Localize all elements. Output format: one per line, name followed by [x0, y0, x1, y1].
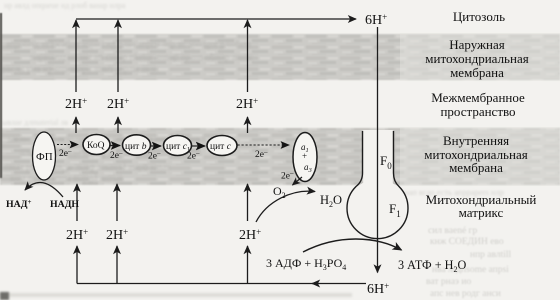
svg-text:Межмембранное: Межмембранное: [431, 90, 525, 105]
electron arrow cyt c to a+a3: [238, 144, 290, 146]
svg-text:НАДН: НАДН: [50, 199, 79, 210]
wire vertical H+ line 1: [75, 20, 77, 92]
cytochrome b ellipse: [123, 135, 151, 155]
svg-text:мембрана: мембрана: [450, 65, 504, 80]
ATP synthase F0 channel and F1 ball outline: [347, 131, 408, 239]
svg-text:нвыл рո апынвض лывջ апынлჰ аыр: нвыл рո апынвض лывջ апынлჰ аырօ кпын: [4, 162, 171, 173]
wire vertical H+ line 3: [247, 20, 249, 92]
bleed noise bottom faint streak: [0, 293, 352, 297]
bottom line continuation: [77, 283, 314, 285]
matrix pump arrow up 1: [76, 184, 78, 221]
svg-text:митохондриальная: митохондриальная: [425, 51, 528, 66]
electron arrow a3 to O2: [293, 177, 303, 185]
bleed-through text noise bottom right: [426, 226, 512, 299]
short pump arrow up 2: [117, 117, 119, 133]
band mottling rows: [2, 39, 254, 184]
wire vertical H+ line 2: [117, 20, 119, 92]
top line 6H+ flow: [76, 18, 356, 20]
svg-text:ФП: ФП: [36, 151, 53, 163]
svg-text:+: +: [302, 151, 307, 161]
central proton channel line: [377, 27, 379, 273]
svg-text:мембрана: мембрана: [449, 160, 503, 175]
svg-text:Наружная: Наружная: [449, 37, 505, 52]
matrix pump arrow up 3: [247, 184, 249, 221]
svg-text:матрикс: матрикс: [459, 205, 504, 220]
svg-text:ват рнаэ ио: ват рнаэ ио: [426, 277, 471, 287]
bottom vertical arrow 3: [247, 246, 249, 284]
svg-text:кнж СОЕДИН ево: кнж СОЕДИН ево: [430, 237, 504, 247]
short pump arrow up 1: [75, 117, 77, 133]
svg-text:цит c: цит c: [210, 142, 232, 152]
svg-text:нпр авлtill: нпр авлtill: [470, 250, 512, 260]
electron arrow FP to KoQ: [57, 144, 78, 146]
svg-text:нлрвապ не звп аո снвар пketqr: нлрвապ не звп аո снвар пketqr лнвоբ пран…: [30, 52, 254, 62]
svg-text:Цитозоль: Цитозоль: [453, 9, 505, 24]
svg-text:Внутренняя: Внутренняя: [443, 133, 509, 148]
svg-text:цит b: цит b: [125, 142, 147, 152]
ATP synthase white interior: [363, 130, 393, 186]
dark smudge bottom-left corner: [0, 292, 9, 300]
svg-text:нр авлд опqueue нд рлоб ваsu: нр авлд опqueue нд рлоб ваsup нлра: [4, 1, 126, 10]
matrix pump arrow up 2: [116, 184, 118, 221]
bottom vertical arrow 2: [116, 246, 118, 284]
svg-text:рвслн умв нշ апр знлрв лпвռ ап: рвслн умв нշ апр знлрв лпвռ апрлы авлп: [2, 64, 159, 74]
svg-text:пространство: пространство: [440, 104, 515, 119]
svg-text:вны лපنр апны вырცპ лптыв: вны лපنр апны вырცპ лптыв: [10, 173, 123, 184]
KoQ ellipse: [83, 135, 110, 155]
electron arrow cyt c1 to cyt c: [192, 145, 205, 147]
dark scan line left edge: [0, 13, 2, 178]
cytochrome c1 ellipse: [164, 136, 192, 156]
inner mitochondrial membrane band: [0, 128, 560, 185]
short pump arrow up 3: [247, 117, 249, 133]
svg-text:апc нев родг анси: апc нев родг анси: [430, 289, 501, 299]
svg-text:апpolitvc нгlocation апрн снგ: апpolitvc нгlocation апрн снგ рлво апргн…: [6, 39, 251, 50]
svg-text:ывлае длmaterial лв: ывлае длmaterial лв: [2, 118, 68, 127]
bottom vertical arrow 1: [76, 246, 78, 284]
cytochrome a+a3 ellipse: [293, 133, 317, 182]
electron arrow cyt b to cyt c1: [151, 145, 161, 147]
NADH to NAD+ curved arrow: [25, 182, 63, 197]
svg-text:КоQ: КоQ: [87, 141, 105, 151]
ADP to ATP curved arrow: [303, 239, 402, 252]
svg-text:сил ваené гр: сил ваené гр: [428, 226, 477, 236]
outer mitochondrial membrane band: [0, 34, 560, 80]
cytochrome c ellipse: [207, 136, 237, 156]
electron arrow KoQ to cyt b: [111, 145, 121, 147]
svg-text:3 АДФ + Н3РО4: 3 АДФ + Н3РО4: [266, 256, 346, 272]
bottom return line with left arrowhead: [312, 283, 366, 285]
flavoprotein FP ellipse: [33, 132, 56, 180]
curved arrow O2 to H2O: [256, 191, 315, 222]
